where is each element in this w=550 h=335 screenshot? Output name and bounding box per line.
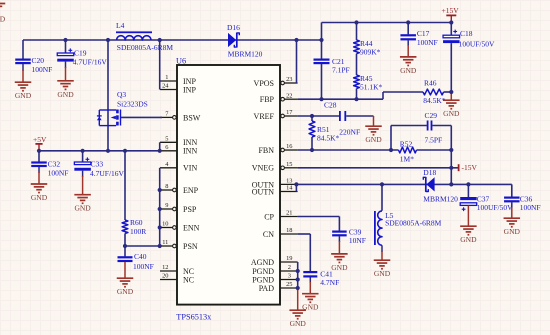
svg-text:GND: GND	[400, 66, 417, 75]
svg-text:SDE0805A-6R8M: SDE0805A-6R8M	[117, 43, 174, 52]
svg-text:2: 2	[288, 264, 291, 271]
svg-text:4.7UF/16V: 4.7UF/16V	[90, 169, 125, 178]
svg-text:CP: CP	[264, 212, 274, 221]
svg-text:7.5PF: 7.5PF	[425, 136, 443, 145]
svg-text:L4: L4	[116, 21, 125, 30]
svg-text:MBRM120: MBRM120	[228, 50, 263, 59]
svg-text:C21: C21	[332, 57, 345, 66]
svg-text:10NF: 10NF	[349, 236, 366, 245]
svg-text:17: 17	[286, 109, 293, 116]
svg-text:84.5K*: 84.5K*	[423, 96, 446, 105]
svg-text:C18: C18	[460, 29, 473, 38]
svg-text:7.1PF: 7.1PF	[332, 66, 350, 75]
svg-text:ENP: ENP	[183, 186, 199, 195]
svg-text:PSP: PSP	[183, 205, 197, 214]
svg-text:C33: C33	[91, 159, 104, 168]
svg-text:19: 19	[286, 255, 292, 262]
svg-text:12: 12	[162, 264, 168, 271]
svg-text:CN: CN	[263, 230, 274, 239]
svg-text:ENN: ENN	[183, 223, 200, 232]
svg-text:4.7UF/16V: 4.7UF/16V	[73, 57, 108, 66]
svg-text:100NF: 100NF	[520, 203, 541, 212]
svg-text:GND: GND	[331, 263, 348, 272]
svg-text:100UF/50V: 100UF/50V	[477, 203, 513, 212]
svg-text:VNEG: VNEG	[252, 164, 274, 173]
svg-text:84.5K*: 84.5K*	[317, 134, 340, 143]
svg-text:FBN: FBN	[258, 146, 274, 155]
svg-text:GND: GND	[31, 193, 48, 202]
svg-text:3: 3	[288, 273, 291, 280]
svg-text:GND: GND	[374, 269, 391, 278]
svg-text:R46: R46	[424, 79, 437, 88]
svg-text:9: 9	[165, 202, 168, 209]
svg-text:100NF: 100NF	[417, 38, 438, 47]
svg-text:GND: GND	[15, 91, 32, 100]
svg-text:BSW: BSW	[183, 113, 201, 122]
svg-text:NC: NC	[183, 275, 194, 284]
svg-text:C19: C19	[74, 49, 87, 58]
svg-text:100NF: 100NF	[133, 262, 154, 271]
svg-text:SDE0805A-6R8M: SDE0805A-6R8M	[385, 219, 442, 228]
svg-text:C28: C28	[324, 100, 337, 109]
svg-text:INP: INP	[183, 85, 196, 94]
svg-text:VIN: VIN	[183, 164, 197, 173]
svg-text:C29: C29	[425, 111, 438, 120]
svg-text:OUTN: OUTN	[252, 187, 274, 196]
svg-text:1: 1	[165, 74, 168, 81]
svg-text:22: 22	[286, 92, 292, 99]
svg-text:+5V: +5V	[33, 135, 47, 144]
svg-text:FBP: FBP	[260, 95, 275, 104]
svg-text:VPOS: VPOS	[254, 79, 274, 88]
svg-text:11: 11	[162, 239, 168, 246]
svg-text:C17: C17	[417, 29, 430, 38]
svg-text:14: 14	[286, 185, 293, 192]
svg-text:MBRM120: MBRM120	[423, 194, 458, 203]
svg-text:51.1K*: 51.1K*	[360, 83, 383, 92]
svg-text:24: 24	[162, 83, 169, 90]
svg-text:100NF: 100NF	[48, 168, 69, 177]
svg-text:16: 16	[286, 143, 292, 150]
svg-text:R52: R52	[400, 139, 413, 148]
svg-text:100NF: 100NF	[32, 65, 53, 74]
svg-text:Si2323DS: Si2323DS	[117, 99, 148, 108]
svg-text:25: 25	[286, 281, 292, 288]
svg-text:6: 6	[165, 144, 168, 151]
svg-text:U6: U6	[176, 56, 186, 65]
svg-text:GND: GND	[504, 227, 521, 236]
svg-text:+15V: +15V	[442, 6, 460, 15]
svg-text:C20: C20	[32, 56, 45, 65]
svg-text:Q3: Q3	[117, 90, 126, 99]
svg-text:20: 20	[162, 273, 168, 280]
svg-text:1M*: 1M*	[400, 155, 414, 164]
svg-text:21: 21	[286, 210, 292, 217]
svg-text:8: 8	[165, 183, 168, 190]
svg-text:PSN: PSN	[183, 242, 198, 251]
svg-text:GND: GND	[0, 15, 6, 24]
svg-text:PAD: PAD	[259, 284, 274, 293]
svg-text:GND: GND	[460, 235, 477, 244]
svg-text:100R: 100R	[130, 227, 146, 236]
svg-text:100UF/50V: 100UF/50V	[459, 39, 495, 48]
svg-text:5: 5	[165, 136, 168, 143]
svg-text:TPS6513x: TPS6513x	[176, 313, 212, 322]
svg-text:GND: GND	[290, 319, 307, 328]
svg-text:INN: INN	[183, 147, 197, 156]
svg-text:D16: D16	[227, 23, 240, 32]
svg-text:GND: GND	[117, 287, 134, 296]
svg-text:GND: GND	[74, 204, 91, 213]
svg-text:GND: GND	[443, 109, 460, 118]
svg-text:D18: D18	[423, 168, 436, 177]
svg-text:13: 13	[286, 178, 292, 185]
svg-text:909K*: 909K*	[360, 48, 381, 57]
svg-text:18: 18	[286, 227, 292, 234]
svg-text:15: 15	[286, 161, 292, 168]
svg-text:AGND: AGND	[251, 258, 274, 267]
svg-text:GND: GND	[365, 135, 382, 144]
svg-text:C40: C40	[134, 252, 147, 261]
svg-text:10: 10	[162, 221, 168, 228]
svg-text:-15V: -15V	[462, 163, 478, 172]
svg-text:C32: C32	[48, 159, 61, 168]
svg-text:23: 23	[286, 76, 292, 83]
svg-text:220NF: 220NF	[339, 127, 360, 136]
svg-text:GND: GND	[57, 90, 74, 99]
svg-text:VREF: VREF	[254, 112, 275, 121]
svg-text:R60: R60	[130, 218, 143, 227]
svg-text:4.7NF: 4.7NF	[320, 278, 339, 287]
